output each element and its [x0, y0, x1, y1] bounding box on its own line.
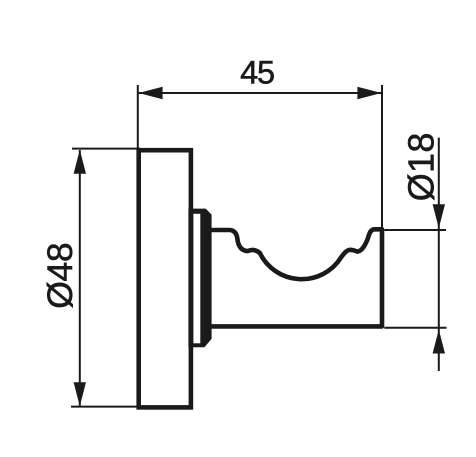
- svg-text:Ø48: Ø48: [40, 243, 80, 309]
- svg-text:Ø18: Ø18: [400, 132, 441, 201]
- svg-text:45: 45: [240, 54, 274, 90]
